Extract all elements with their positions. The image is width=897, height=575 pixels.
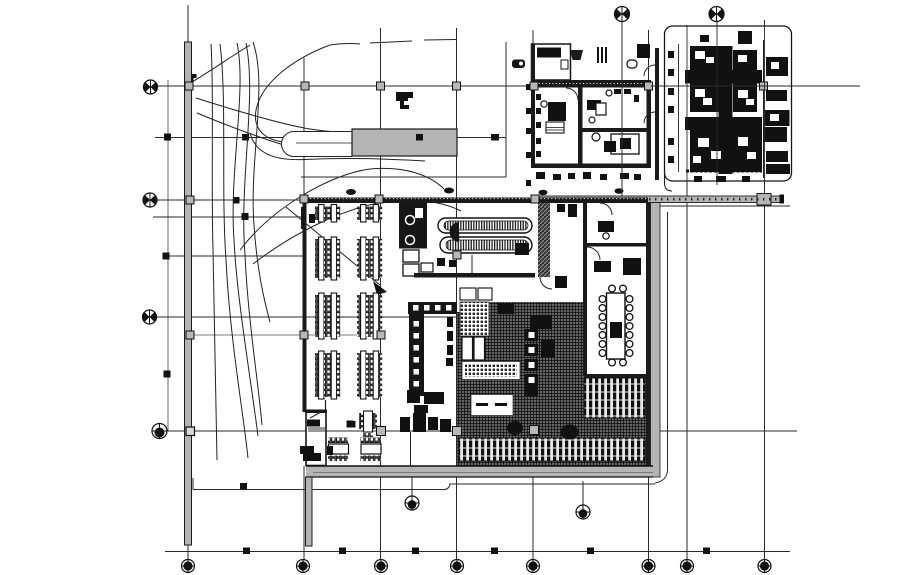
shaft wall hatched — [538, 203, 550, 277]
NE office rounded boundary — [665, 26, 792, 181]
grid square marker x=189 y=86 — [185, 82, 193, 90]
vertical grid x=622 — [621, 21, 623, 199]
right wing unit 1 cut — [771, 62, 779, 69]
road curve a7 upper left X — [192, 45, 250, 82]
right wing unit 2 — [766, 90, 787, 101]
NE office bottom dashed wall — [686, 170, 762, 173]
NE office top blob 2 — [700, 35, 709, 42]
grid square marker x=380 y=86 — [377, 82, 385, 90]
grid bubble bottom x=381 — [374, 559, 388, 573]
cubicle white desks — [693, 51, 756, 163]
cook line sink 2 — [406, 236, 415, 245]
NE room chair — [606, 90, 612, 96]
tick square y=137 x=419 — [416, 134, 423, 141]
below building fixtures row — [536, 172, 641, 180]
cook line sink 1 — [406, 216, 415, 225]
office top wall items — [557, 204, 565, 212]
kitchen equipment row rect2 — [413, 413, 426, 432]
gray canopy bar top centre — [352, 129, 457, 156]
left margin chairs — [668, 51, 674, 163]
dining table pair R2B — [357, 237, 382, 280]
grid bubble below building x=583 — [576, 505, 590, 519]
tick on boundary y=486 x=243 — [240, 483, 247, 490]
meeting chairs left — [599, 296, 606, 357]
dining table pair R4A — [315, 351, 340, 399]
CURVES — [192, 40, 461, 461]
corner room desk — [307, 420, 320, 427]
road curve a1 upper sweep — [196, 98, 352, 132]
left room shelf — [546, 122, 564, 133]
road curve s3 — [233, 43, 258, 436]
tick square y=200 x=236 — [233, 197, 240, 204]
office partition horizontal y=243 — [587, 243, 646, 247]
office chair 1 — [603, 233, 609, 239]
vertical grid x=457 — [456, 28, 458, 560]
dining table pair R1B — [357, 205, 382, 223]
left room shelf lines — [546, 128, 564, 131]
NE office inner left line — [678, 44, 680, 172]
prep boxes below counter 1 — [403, 250, 419, 262]
buffet counter vertical — [409, 314, 424, 396]
kitchen vertical line — [471, 255, 473, 273]
grill bars — [598, 47, 606, 63]
vertical grid x=304 lower — [303, 466, 305, 560]
cubicle cluster Q4 — [733, 83, 757, 112]
grid bubble top x=717 — [709, 6, 725, 22]
kitchen white box 2 — [478, 288, 492, 300]
shrub dot 2 — [444, 188, 454, 194]
bench above building — [570, 50, 583, 60]
cubicle cross horizontal 1 — [685, 70, 762, 84]
main hatch floor B — [583, 375, 646, 466]
grid square marker x=304 y=199 — [300, 195, 308, 203]
leader arrowhead — [373, 281, 387, 295]
annex item — [561, 60, 568, 69]
dining table pair R1A — [315, 205, 340, 223]
office door arc 1 — [587, 247, 600, 260]
meeting room bottom wall — [585, 374, 646, 378]
kitchen equipment row rect1 — [400, 417, 410, 432]
dining tick — [349, 421, 356, 428]
prep boxes below counter 2 — [403, 264, 419, 276]
grid square marker x=763 y=86 — [760, 82, 768, 90]
east gray walkway band — [651, 203, 661, 478]
upper hatch black blob 1 — [530, 315, 552, 329]
corridor wall east — [655, 48, 659, 180]
tick square y=217 x=245 — [242, 213, 249, 220]
dining cluster B1 — [327, 438, 349, 462]
grid bubble below building x=412 — [405, 477, 419, 510]
SE room big desk — [611, 134, 639, 154]
annex room top — [532, 44, 571, 80]
NE room desk black — [587, 100, 601, 110]
bottom wall bottom edge — [306, 476, 653, 478]
office top wall item 2 — [568, 204, 577, 217]
boundary stub x=193 — [192, 478, 194, 490]
grid bubble top x=622 — [614, 6, 630, 22]
bottom tick y=550 x=706 — [703, 548, 710, 555]
grid line B horizontal y=137 — [155, 137, 506, 139]
meeting room floor — [587, 247, 646, 375]
right wing unit 5 — [766, 151, 788, 162]
covered walkway band — [533, 196, 783, 203]
meeting table — [607, 293, 626, 359]
black unit column B — [525, 329, 538, 396]
office inner wall vertical — [578, 87, 583, 168]
cubicle cluster Q2 — [733, 50, 757, 70]
dining table pair R4B — [357, 351, 382, 399]
small cart — [421, 263, 433, 272]
room right wall stub — [325, 400, 327, 412]
queue rail upper hatch — [444, 221, 528, 230]
grid bubble bottom x=533 — [526, 559, 540, 573]
annex black counter — [537, 48, 561, 58]
cook line black counter — [399, 203, 427, 249]
bottom tick y=550 x=494 — [491, 548, 498, 555]
office desk 4 — [555, 276, 567, 288]
bottom wall gray band — [306, 466, 653, 477]
office door arc 3 — [540, 277, 552, 289]
kitchen divider line — [410, 432, 412, 466]
white equipment box 1 — [462, 337, 473, 360]
main hatch floor A — [457, 312, 583, 466]
rounded kiosk item — [512, 60, 525, 69]
kitchen equipment upper rect7 — [414, 405, 428, 413]
tick square on x=168 at y=256 — [163, 253, 170, 260]
grid square marker x=648 y=86 — [645, 82, 653, 90]
corner room top wall thick — [305, 410, 327, 414]
cubicle cross vertical — [719, 46, 733, 174]
corridor door arc 1 — [644, 65, 655, 76]
overlay grid x=622 — [621, 44, 623, 196]
vertical grid x=648 lower — [648, 477, 650, 560]
dining cluster B2 — [361, 438, 382, 462]
stadium outline left of bar — [281, 132, 352, 157]
grid line D horizontal y=217 — [153, 216, 304, 218]
tick square y=424 x=350 — [347, 421, 354, 428]
vertical grid x=648 upper — [648, 30, 650, 80]
grid bubble bottom x=188 — [181, 559, 195, 573]
road dash 2 — [424, 39, 456, 42]
left wall small items — [536, 94, 541, 157]
vertical grid x=304 upper — [303, 58, 305, 200]
grid square marker x=190 y=200 — [186, 196, 194, 204]
white equipment box 2 — [474, 337, 485, 360]
tick square on bar x=419 — [416, 134, 423, 141]
vertical grid x=533 lower — [532, 477, 534, 560]
overlay grid y=86 right — [651, 85, 860, 87]
SE room chair black — [604, 141, 616, 152]
road curve a3 top swing — [255, 45, 330, 142]
boundary line y=486 below building — [193, 489, 444, 491]
vertical grid x=533 upper — [532, 30, 534, 46]
vertical grid x=717 — [716, 21, 718, 185]
bottom tick y=550 x=246 — [243, 548, 250, 555]
office building bottom wall — [531, 164, 651, 169]
road curve a5 — [253, 200, 461, 264]
vertical grid x=188 above strip — [187, 5, 189, 44]
office partition vertical x=583 — [583, 203, 587, 375]
bottom tick y=550 x=415 — [412, 548, 419, 555]
grid square marker x=379 y=199 — [375, 195, 383, 203]
shrub dot 1 — [346, 189, 356, 195]
road dash 1 — [370, 41, 412, 43]
cubicle cluster Q5 — [690, 130, 733, 172]
grid bottom line y=555 — [165, 551, 790, 553]
left room chair — [541, 101, 547, 107]
overlay grid x=764 — [764, 26, 766, 181]
cubicle cluster Q6 — [732, 130, 762, 172]
grid square marker x=534 y=430 — [530, 426, 539, 435]
meeting chairs ends — [609, 285, 627, 366]
cook line white slot — [415, 208, 423, 218]
vertical grid x=764 — [764, 20, 766, 560]
fixtures column left — [446, 303, 453, 366]
grid square marker x=190 y=335 — [186, 331, 194, 339]
pocket band 2 dash 1 — [476, 403, 488, 406]
office desk 3 — [623, 258, 641, 275]
grid bubble left y=87 — [144, 80, 158, 94]
road curve a4 over forecourt — [240, 168, 444, 250]
white pocket band 1 — [462, 362, 520, 380]
top wall of building — [302, 198, 648, 204]
road curve a3b top tail — [330, 43, 360, 45]
kitchen white boxes above band — [460, 288, 476, 300]
left roadside wall strip — [185, 42, 192, 545]
kitchen equipment row rect4 — [440, 419, 451, 432]
right wing unit 3 cut — [770, 114, 779, 121]
canopy bar divider — [296, 142, 352, 144]
office desk 1 — [598, 221, 614, 232]
grid line E horizontal y=256 — [163, 255, 303, 257]
queue rail upper — [438, 218, 532, 233]
servery black band — [408, 302, 457, 314]
left room door arc — [566, 88, 578, 100]
walkway big square — [757, 194, 771, 206]
kitchen equipment upper rect5 — [407, 390, 420, 403]
grid bubble bottom x=648 — [642, 559, 656, 573]
left room desk cluster — [548, 102, 566, 121]
corner room walls — [306, 411, 326, 466]
light hatch block upper — [460, 302, 489, 336]
corridor door arc 2 — [644, 112, 655, 123]
black box fixture — [515, 243, 529, 255]
cubicle cluster Q3 — [690, 83, 719, 112]
boundary line y=483 lower right — [444, 484, 655, 490]
NE office right wing divider — [763, 40, 765, 178]
road curve s4 — [253, 42, 270, 322]
cubicle cross horizontal 2 — [685, 117, 762, 130]
office building right wall — [647, 80, 652, 168]
grid square marker x=190 y=431 — [186, 427, 195, 436]
bottom tick y=550 x=590 — [587, 548, 594, 555]
grid square marker x=535 y=199 — [531, 195, 539, 203]
dining table pair R3A — [315, 293, 340, 339]
leader diagonal with arrowhead — [286, 207, 380, 285]
rounded item — [627, 60, 637, 68]
outer boundary line y=206 — [656, 205, 790, 207]
pocket band 2 dash 2 — [495, 403, 507, 406]
grid square marker x=305 y=86 — [301, 82, 309, 90]
buffet counter white slots — [414, 321, 420, 387]
toilet stall row upper — [584, 378, 645, 418]
NE office bottom small marks — [694, 176, 750, 182]
kitchen wall y=275 — [414, 273, 535, 278]
white pocket band 2 — [471, 395, 513, 416]
road curve a2 lower sweep — [197, 113, 352, 156]
grid line A horizontal y=86 — [157, 85, 860, 87]
grid square marker x=456 y=86 — [453, 82, 461, 90]
road curve s2 — [220, 44, 248, 458]
dining table R5 single — [359, 411, 377, 437]
tick square y=317 x=330 — [327, 313, 334, 320]
grid bubble left y=431 — [152, 423, 168, 439]
cubicle cluster Q1 — [690, 46, 719, 70]
east dark wall — [646, 203, 651, 477]
grid square marker x=304 y=335 — [300, 331, 308, 339]
office door arc 2 — [600, 203, 612, 215]
right wing unit 1 — [766, 57, 788, 76]
grid bubble bottom x=303 — [296, 559, 310, 573]
pocket band 1 fixtures — [465, 364, 517, 377]
vertical grid x=583 stub — [582, 481, 584, 506]
grid line H horizontal y=431 left part — [167, 430, 480, 432]
left wall of building — [303, 199, 307, 412]
corner room shelf — [308, 427, 325, 432]
overlay grid x=687 — [686, 26, 688, 181]
office building left wall — [531, 44, 535, 168]
column B white centres — [529, 332, 535, 383]
grid bubble bottom x=687 — [680, 559, 694, 573]
road curve s1 — [211, 44, 217, 460]
corner room door line — [310, 411, 323, 418]
tick square on x=168 at y=137 — [164, 134, 171, 141]
walkway dash texture — [535, 198, 781, 201]
road curve s5 — [244, 43, 262, 425]
black blob fixture — [561, 425, 579, 440]
grid square marker x=381 y=335 — [377, 331, 385, 339]
vertical grid x=188 below strip — [187, 545, 189, 560]
SE room circle item — [592, 133, 600, 141]
grid square marker x=457 y=255 — [453, 251, 461, 259]
meeting chairs right — [626, 296, 633, 357]
tick square on x=168 at y=374 — [164, 371, 171, 378]
gray stub wall below corner — [306, 477, 313, 546]
grid line H horizontal y=431 right part — [653, 430, 797, 432]
toilet stall row lower — [459, 438, 645, 461]
shrub dot 3 — [539, 190, 548, 196]
office building top wall — [531, 80, 651, 88]
NE room desk white — [596, 103, 606, 115]
kitchen equipment row rect3 — [428, 417, 438, 430]
bottom wall inner line — [313, 472, 653, 474]
kitchen side fixtures — [437, 258, 456, 267]
grid line C horizontal y=200 — [157, 199, 303, 201]
tick square y=137 x=340 — [337, 134, 344, 141]
NE room stool — [589, 117, 595, 123]
wall-side small squares — [526, 84, 531, 186]
dining table pair R3B — [357, 293, 382, 339]
dining table pair R2A — [315, 237, 340, 280]
servery band white slots — [413, 305, 452, 311]
vertical grid x=687 — [686, 25, 688, 560]
forecourt line y=177 — [301, 176, 506, 178]
grid line F horizontal y=317 — [157, 316, 457, 318]
vertical line x=506 — [505, 42, 507, 177]
right wing unit 3 — [765, 110, 790, 126]
queue rail end blob — [450, 222, 460, 242]
upper hatch black blob 2 — [541, 340, 555, 357]
office desk 2 — [594, 261, 611, 272]
meeting table black centre — [610, 322, 622, 338]
grid bubble bottom x=764 — [758, 559, 772, 573]
NE office boundary tail — [665, 168, 673, 191]
kitchen equipment upper rect6 — [424, 392, 444, 404]
shrub dot 4 — [615, 188, 624, 194]
queue rail lower — [440, 237, 532, 253]
top wall tick texture — [303, 198, 648, 200]
bottom wall top edge — [306, 465, 653, 467]
grid line G horizontal y=335 — [186, 334, 381, 336]
grid square marker x=381 y=431 — [377, 427, 386, 436]
bracket on strip — [192, 74, 197, 83]
wall blob fixture lower — [303, 454, 311, 461]
right wing unit 6 — [766, 164, 790, 174]
bottom tick y=550 x=342 — [339, 548, 346, 555]
wall texture lines — [532, 83, 650, 85]
walkway end cap — [780, 195, 785, 204]
office inner wall horizontal — [582, 128, 651, 132]
rounded site boundary right — [655, 212, 668, 483]
NE wall items — [614, 89, 639, 102]
vertical grid x=380 — [380, 28, 382, 560]
dining wall pilaster — [301, 207, 306, 229]
corner room bench — [308, 453, 321, 461]
right wing unit 4 — [763, 127, 787, 142]
kiosk white dot — [519, 62, 523, 66]
T symbol north — [396, 92, 413, 109]
dining wall side table — [309, 214, 315, 223]
grid bubble left y=200 — [143, 193, 157, 207]
grid square marker x=457 y=431 — [453, 427, 462, 436]
grid bubble left y=317 — [143, 310, 157, 324]
SE room desk blob — [620, 138, 631, 149]
black disk fixture — [507, 421, 523, 435]
tick square y=137 x=245 — [242, 134, 249, 141]
grid square marker x=534 y=86 — [530, 82, 538, 90]
wall blob fixture — [300, 446, 314, 454]
grid bubble bottom x=457 — [450, 559, 464, 573]
queue rail lower hatch — [446, 240, 528, 250]
NE office top blob 1 — [738, 31, 752, 44]
black unit above building — [637, 44, 650, 58]
ancillary vertical line x=168 — [167, 80, 169, 431]
overlay grid x=717 — [716, 26, 718, 181]
tick square y=137 x=495 — [491, 134, 499, 141]
road curve a6 below bar — [250, 133, 425, 161]
